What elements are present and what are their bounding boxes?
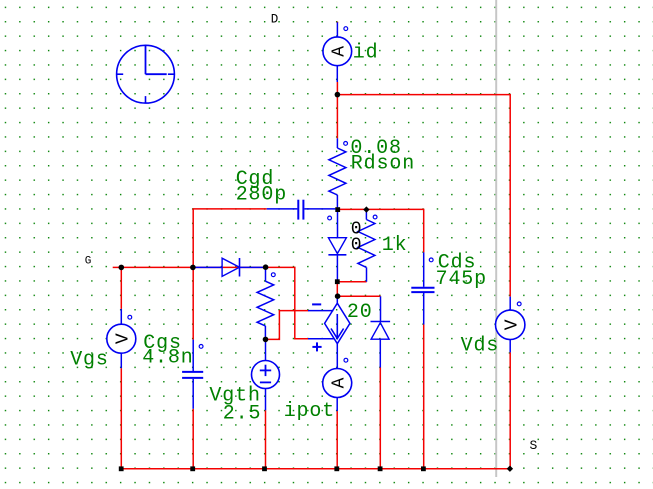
terminal marker ipot <box>344 358 348 362</box>
svg-text:S: S <box>530 438 538 453</box>
ammeter ipot lead bottom <box>336 398 338 412</box>
VCCS minus sign <box>312 303 321 305</box>
svg-text:Vgs: Vgs <box>70 349 109 372</box>
svg-text:1k: 1k <box>382 234 408 257</box>
ammeter ipot lead top <box>336 344 338 369</box>
voltmeter Vgs lead top <box>120 309 122 324</box>
junction dot 6 <box>263 337 269 343</box>
diode D3 lead top <box>337 209 339 237</box>
wire G row horizontal <box>121 266 265 268</box>
diode D3 triangle <box>328 238 346 254</box>
junction diamond 1 <box>363 206 369 212</box>
VCCS lead top <box>336 298 338 303</box>
terminal marker Cds <box>429 258 433 262</box>
diode D2 triangle <box>371 323 389 340</box>
capacitor Cgs plate top <box>182 371 203 373</box>
junction square 3 <box>119 466 124 471</box>
resistor R2 lead top <box>265 267 267 281</box>
capacitor Cgd lead left <box>267 208 298 210</box>
VCCS plus sign <box>312 346 321 348</box>
junction dot 1 <box>335 92 341 98</box>
diode D2 lead top <box>380 296 382 321</box>
junction square 8 <box>421 466 426 471</box>
diode D1 triangle <box>222 258 239 276</box>
diode D1 lead left <box>193 266 222 268</box>
source Vgth plus <box>260 369 271 371</box>
page edge line <box>495 0 497 477</box>
terminal marker D3 <box>328 216 332 220</box>
VCCS control lead minus <box>308 310 333 312</box>
wire VCCS top node to diode D2 <box>338 295 381 297</box>
VCCS arrow <box>336 314 338 337</box>
capacitor Cgd lead right <box>304 208 335 210</box>
ammeter ipot body <box>323 369 352 398</box>
svg-text:D: D <box>271 12 279 26</box>
capacitor Cgs lead bottom <box>192 379 194 409</box>
junction dot 4 <box>263 264 269 270</box>
voltmeter Vgs body <box>107 324 136 353</box>
svg-text:A: A <box>329 377 349 388</box>
junction dot 3 <box>190 265 196 271</box>
wire diode D2 lower <box>379 368 381 469</box>
wire G stub <box>113 266 122 268</box>
capacitor Cgd plate left <box>297 200 299 220</box>
svg-text:Rdson: Rdson <box>351 153 415 176</box>
ammeter U_id lead top <box>336 22 338 37</box>
wire drain right vertical to Vds <box>509 94 511 297</box>
VCCS source body diamond <box>325 303 350 344</box>
junction square 1 <box>335 207 340 212</box>
junction dot 5 <box>335 293 341 299</box>
capacitor Cds plate bottom <box>411 291 434 293</box>
diode D2 lead bottom <box>379 339 381 367</box>
terminal marker 1k <box>373 215 377 219</box>
wire drain stub top <box>336 22 338 23</box>
capacitor Cds lead bottom <box>423 293 425 325</box>
wire source rail S <box>121 468 510 470</box>
junction square 2 <box>335 279 340 284</box>
junction square 7 <box>378 466 383 471</box>
wire Cgd top horizontal <box>193 208 267 210</box>
diode D3 cathode bar <box>328 254 346 256</box>
svg-text:20: 20 <box>347 301 373 324</box>
junction square 5 <box>262 466 267 471</box>
wire diode D3 to VCCS junction <box>336 282 338 297</box>
wire Cgd row left vertical <box>192 208 194 339</box>
wire Cgs lower <box>192 409 194 469</box>
svg-text:2.5: 2.5 <box>223 403 262 426</box>
wire Vgth lower <box>265 410 267 469</box>
wire control W1 <box>266 267 309 338</box>
svg-text:id: id <box>353 42 379 65</box>
wire ipot lower <box>336 411 338 469</box>
wire Cds vertical lower <box>423 325 425 469</box>
svg-text:Vds: Vds <box>461 335 500 358</box>
resistor 1k zigzag <box>358 220 375 268</box>
wire control W2 <box>266 311 309 340</box>
capacitor Cgs lead top <box>192 340 194 371</box>
diode D1 lead right <box>240 266 266 268</box>
capacitor Cgs plate bottom <box>182 377 203 379</box>
wire row 209 square to Cds corner <box>338 208 424 210</box>
svg-text:4.8n: 4.8n <box>142 346 193 369</box>
voltmeter Vds body <box>496 310 525 339</box>
svg-text:ipot: ipot <box>284 400 335 423</box>
junction dot 2 <box>119 265 125 271</box>
capacitor Cgd plate right <box>302 200 304 220</box>
source Vgth lead top <box>265 339 267 360</box>
capacitor Cds lead top <box>423 252 425 286</box>
svg-text:V: V <box>502 319 522 330</box>
svg-text:G: G <box>85 256 92 268</box>
resistor 1k lead top <box>365 209 367 219</box>
wire 1k bottom horizontal <box>337 281 366 283</box>
ammeter U_id lead bottom <box>336 66 338 82</box>
resistor R2 lead bottom <box>264 326 266 340</box>
terminal marker Vgs <box>128 315 132 319</box>
clock icon <box>117 45 175 103</box>
wire Vgs upper <box>120 267 122 309</box>
svg-text:V: V <box>113 333 133 344</box>
resistor R2 zigzag <box>257 281 274 326</box>
svg-text:280p: 280p <box>236 184 287 207</box>
terminal marker Rdson <box>344 142 348 146</box>
junction diamond 2 <box>507 466 513 472</box>
terminal marker Cgs <box>199 345 203 349</box>
resistor Rdson lead top <box>336 138 338 148</box>
voltmeter Vgs lead bottom <box>120 353 122 368</box>
wire Vds lower to rail <box>509 352 511 468</box>
terminal marker id <box>344 27 348 31</box>
resistor Rdson lead bottom <box>336 195 338 207</box>
ammeter U_id body <box>323 37 352 66</box>
wire drain node horizontal <box>337 94 510 96</box>
wire id ammeter to Rdson <box>336 82 338 138</box>
source Vgth lead bottom <box>265 389 267 411</box>
diode D1 cathode bar <box>239 258 241 277</box>
junction square 4 <box>190 466 195 471</box>
diode D2 cathode bar <box>371 321 391 323</box>
terminal marker R2 <box>271 273 275 277</box>
svg-text:A: A <box>330 46 350 57</box>
voltmeter Vds lead bottom <box>509 340 511 353</box>
wire Vgs lower <box>120 368 122 469</box>
resistor Rdson zigzag <box>329 148 346 195</box>
junction square 6 <box>334 466 339 471</box>
voltmeter Vds lead top <box>509 297 511 311</box>
source Vgth body <box>252 361 280 389</box>
svg-text:745p: 745p <box>436 268 487 291</box>
terminal marker Vds <box>517 302 521 306</box>
wire Cds vertical upper <box>423 209 425 253</box>
capacitor Cds plate top <box>411 287 434 289</box>
VCCS control lead plus <box>308 338 334 340</box>
diode D3 lead bottom <box>336 255 338 282</box>
svg-text:0: 0 <box>351 236 363 256</box>
resistor 1k lead bottom <box>366 267 368 281</box>
source Vgth minus <box>260 381 271 383</box>
